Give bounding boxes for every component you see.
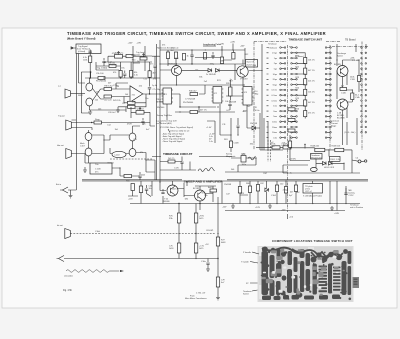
capacitor C201 xyxy=(88,50,92,54)
diode D201 xyxy=(208,69,212,73)
wire xyxy=(160,181,184,197)
svg-text:0.5ms: 0.5ms xyxy=(272,100,277,102)
wire xyxy=(105,120,155,126)
X shift box xyxy=(303,184,323,194)
ground xyxy=(231,204,235,209)
svg-text:Timebase: Timebase xyxy=(268,44,278,46)
svg-text:Gate Off: Gate Off xyxy=(247,60,255,63)
resistor R213 xyxy=(140,57,147,60)
resistor stack labels xyxy=(295,56,315,115)
resistor R204 xyxy=(126,55,133,58)
wire xyxy=(71,47,85,83)
svg-text:22k 1%: 22k 1% xyxy=(308,81,315,83)
svg-text:68k: 68k xyxy=(221,61,224,63)
transistor Q206 xyxy=(85,148,92,156)
svg-text:47k: 47k xyxy=(140,152,143,154)
svg-text:47k: 47k xyxy=(162,45,165,47)
svg-text:Int out: Int out xyxy=(57,224,63,227)
svg-text:10n: 10n xyxy=(149,188,152,190)
wire verticals xamp xyxy=(250,181,296,204)
wire xyxy=(120,153,155,180)
wire xyxy=(89,130,105,163)
resistor R201 xyxy=(89,56,92,63)
svg-text:33k: 33k xyxy=(250,144,253,146)
wire xyxy=(145,46,152,71)
svg-text:22k: 22k xyxy=(142,123,145,125)
resistor R222 xyxy=(174,52,177,59)
component value labels xyxy=(95,49,360,259)
trig level pot xyxy=(136,111,144,115)
wire callout leaders xyxy=(250,252,259,291)
wire xyxy=(195,50,233,60)
wire xyxy=(104,56,152,62)
resistor R34 xyxy=(340,88,347,91)
resistor R233 xyxy=(229,141,232,148)
resistor R240 xyxy=(94,121,102,124)
wire opamp out xyxy=(143,93,165,95)
capacitor C217 xyxy=(236,122,239,130)
wire xyxy=(343,90,353,145)
wire xyxy=(358,60,360,92)
wire right bus xyxy=(347,44,366,145)
svg-text:BC182: BC182 xyxy=(108,163,115,165)
svg-text:47k 1%: 47k 1% xyxy=(308,113,315,115)
resistor R60 xyxy=(131,184,134,191)
resistor chain col1b xyxy=(177,243,180,253)
svg-text:reference 1k/Ω for sel: reference 1k/Ω for sel xyxy=(170,131,190,133)
capacitor C50 xyxy=(180,158,183,166)
box C11B xyxy=(90,163,112,174)
wire xyxy=(149,62,151,87)
wire xyxy=(220,118,231,152)
svg-text:1N4148: 1N4148 xyxy=(109,65,117,67)
transistor Q61 xyxy=(195,190,206,201)
svg-text:R1k: R1k xyxy=(169,218,173,220)
svg-text:Sweep Trig Filter: Sweep Trig Filter xyxy=(157,114,172,117)
svg-text:47k: 47k xyxy=(113,72,116,74)
capacitor C204 xyxy=(123,71,126,79)
svg-text:+24V: +24V xyxy=(334,213,340,215)
svg-text:1N4148: 1N4148 xyxy=(229,102,237,104)
resistor R230 xyxy=(190,93,198,96)
op-amp IC201 xyxy=(130,86,143,102)
svg-text:10μs: 10μs xyxy=(273,74,277,76)
resistor R209 xyxy=(109,65,116,68)
svg-text:C10 4n: C10 4n xyxy=(253,110,259,112)
wire xyxy=(337,44,355,99)
connector trig out xyxy=(66,120,72,130)
svg-text:C 11B: C 11B xyxy=(95,169,101,171)
wire arrowhead xyxy=(120,270,124,272)
diode D60 xyxy=(265,188,269,192)
diode D202 xyxy=(216,69,220,73)
capacitor C211 xyxy=(211,52,214,59)
svg-text:10k: 10k xyxy=(204,195,207,197)
wire xyxy=(60,189,76,191)
svg-text:0.1ms: 0.1ms xyxy=(272,90,277,92)
resistor R50 xyxy=(168,160,175,163)
wire staircase xyxy=(297,53,305,119)
svg-text:unit in Position: unit in Position xyxy=(350,206,363,209)
wire feedback xyxy=(118,94,146,107)
svg-text:C7 1N4148: C7 1N4148 xyxy=(185,99,196,101)
svg-text:C7 4n: C7 4n xyxy=(113,85,118,87)
resistor R72 xyxy=(238,187,241,194)
transistor Q208 xyxy=(129,149,136,157)
wire xyxy=(160,59,177,86)
svg-text:T handle: T handle xyxy=(241,262,250,264)
ground xyxy=(216,296,220,300)
resistor column RV group xyxy=(248,186,251,193)
resistor xyxy=(275,185,278,192)
resistor R206 xyxy=(119,71,122,78)
wire xyxy=(152,56,160,78)
svg-text:50μs: 50μs xyxy=(273,84,277,86)
svg-text:R30 4k7: R30 4k7 xyxy=(189,91,197,93)
resistor R228 xyxy=(232,53,235,60)
resistor stack ST board xyxy=(304,58,307,64)
svg-text:0.5s: 0.5s xyxy=(273,137,277,139)
wire bottom rail xyxy=(130,203,360,205)
resistor R227 xyxy=(220,57,223,64)
svg-text:(+): (+) xyxy=(58,86,61,88)
wire xyxy=(313,181,346,211)
svg-text:Stage: Stage xyxy=(331,125,337,128)
svg-text:68k: 68k xyxy=(185,198,188,200)
ground xyxy=(83,167,87,172)
svg-text:47k: 47k xyxy=(153,78,156,80)
svg-text:Switch: Switch xyxy=(243,293,249,296)
wire table rules xyxy=(168,121,215,143)
gate off box xyxy=(246,60,258,68)
resistor R33 xyxy=(358,76,361,82)
svg-text:x10 probe: x10 probe xyxy=(64,276,74,278)
svg-text:C4B: C4B xyxy=(281,145,286,147)
svg-text:C12V: C12V xyxy=(349,195,355,197)
capacitor C2B xyxy=(241,156,246,163)
resistor R70 xyxy=(139,186,142,193)
svg-text:-12V: -12V xyxy=(222,207,227,209)
wire down bus xyxy=(217,197,219,296)
svg-text:4k7 1%: 4k7 1% xyxy=(308,102,315,104)
svg-text:4k7 1%: 4k7 1% xyxy=(200,110,207,112)
svg-text:R10C 1.2k: R10C 1.2k xyxy=(330,159,339,161)
resistor R210 xyxy=(104,88,112,91)
svg-text:HOLD OFF: HOLD OFF xyxy=(324,167,335,169)
svg-text:Switch: Switch xyxy=(247,63,253,66)
transistor Q207 xyxy=(129,133,136,141)
svg-text:47n: 47n xyxy=(150,64,153,66)
svg-text:100k: 100k xyxy=(83,60,87,62)
wire xyxy=(305,148,352,173)
wire xyxy=(290,135,305,161)
svg-text:C20 4n7: C20 4n7 xyxy=(108,112,116,114)
resistor xyxy=(284,187,287,194)
svg-text:(Trig. Inhibit): (Trig. Inhibit) xyxy=(96,67,107,70)
svg-text:+1.4V: +1.4V xyxy=(206,127,212,129)
svg-text:+24V: +24V xyxy=(230,42,236,44)
switch wafer labels xyxy=(268,47,278,139)
svg-text:1.730 +5V: 1.730 +5V xyxy=(196,293,206,295)
diode D11 xyxy=(329,162,333,166)
wire xyxy=(283,160,365,173)
svg-text:(PO1 R30: Norm. Trig without S: (PO1 R30: Norm. Trig without Signal) xyxy=(160,126,193,129)
resistor R64 xyxy=(210,189,217,192)
svg-text:+24V: +24V xyxy=(219,44,225,46)
wire stub xyxy=(287,214,289,219)
svg-text:Hor out: Hor out xyxy=(57,144,64,147)
wire xyxy=(71,154,85,164)
resistor R223 xyxy=(182,54,185,61)
svg-text:+24V: +24V xyxy=(128,43,134,45)
svg-text:Ext in: Ext in xyxy=(56,183,61,186)
switch contacts xyxy=(280,47,367,139)
input box trig signal xyxy=(76,44,101,54)
svg-text:50ms: 50ms xyxy=(272,132,277,134)
svg-text:47k: 47k xyxy=(202,193,205,195)
svg-text:1u: 1u xyxy=(290,172,292,174)
svg-text:2k2 C5: 2k2 C5 xyxy=(168,158,175,160)
transistor Q205 xyxy=(85,133,92,141)
svg-text:(Main Board Y Board): (Main Board Y Board) xyxy=(67,37,96,41)
svg-text:10k: 10k xyxy=(225,101,228,103)
svg-text:COMPONENT LOCATIONS TIMEBASE S: COMPONENT LOCATIONS TIMEBASE SWITCH UNIT xyxy=(272,239,353,243)
wire trig bus down xyxy=(72,54,77,191)
wire main rail xyxy=(85,77,160,79)
svg-text:R10A 10k: R10A 10k xyxy=(311,144,320,147)
svg-text:R5 2N6004: R5 2N6004 xyxy=(96,81,107,83)
pcb connector tab xyxy=(353,277,360,288)
svg-text:1ms: 1ms xyxy=(273,106,277,108)
svg-text:100n: 100n xyxy=(172,189,176,191)
svg-text:BC182B: BC182B xyxy=(337,118,345,120)
transistor Q31 xyxy=(337,99,348,110)
svg-text:0.2ms: 0.2ms xyxy=(272,95,277,97)
wire xyxy=(89,107,126,112)
wire dashed gang xyxy=(268,140,271,162)
wire rail2 xyxy=(225,210,345,212)
wire xyxy=(160,157,196,171)
junction xyxy=(178,203,179,204)
svg-text:2x 1N4148: 2x 1N4148 xyxy=(206,74,217,76)
wire xyxy=(256,146,283,148)
wire xamp stubs xyxy=(141,181,248,204)
capacitor C208 xyxy=(141,118,144,125)
wire bias loop xyxy=(81,72,90,113)
timebase switch unit border xyxy=(254,42,368,213)
svg-text:20μs: 20μs xyxy=(273,79,277,81)
resistor R243 xyxy=(124,175,132,178)
resistor R226 xyxy=(203,53,206,60)
svg-text:VT 2218: VT 2218 xyxy=(240,79,248,81)
component value labels trigger generator xyxy=(96,45,259,113)
resistor xyxy=(256,185,259,192)
ground xyxy=(206,268,210,272)
wire dashed link xyxy=(70,233,215,235)
svg-text:0.5μs: 0.5μs xyxy=(272,53,277,55)
svg-text:10k 1%: 10k 1% xyxy=(308,60,315,62)
resistor R62 xyxy=(272,146,280,149)
capacitor C60 xyxy=(145,185,151,197)
wire long xyxy=(64,258,218,260)
svg-text:TIMEBASE SWITCH UNIT: TIMEBASE SWITCH UNIT xyxy=(289,38,323,42)
transistor Q201 xyxy=(86,83,93,91)
svg-text:C9k 100: C9k 100 xyxy=(96,73,104,75)
ground xyxy=(116,107,120,113)
capacitor C205 xyxy=(102,58,105,66)
capacitor C207 xyxy=(153,62,156,71)
resistor R216 xyxy=(128,101,136,104)
ground xyxy=(330,206,334,210)
wire xyxy=(225,158,287,172)
svg-text:BC182: BC182 xyxy=(193,188,200,190)
svg-text:( 10.5 - 10k ): ( 10.5 - 10k ) xyxy=(344,132,356,134)
transistor Q203 xyxy=(172,66,182,76)
wire xyxy=(112,83,130,97)
svg-text:Timebase: Timebase xyxy=(268,47,278,49)
wire dashes tb link xyxy=(110,158,152,160)
long rail xyxy=(160,64,245,85)
svg-text:10n: 10n xyxy=(132,101,135,103)
resistor R79 xyxy=(216,277,219,287)
wire buses into unit xyxy=(260,113,283,150)
ground xyxy=(268,204,272,209)
resistor R231 xyxy=(190,111,198,114)
svg-text:+24V: +24V xyxy=(128,199,133,201)
transistor Q202 xyxy=(86,98,93,106)
junction dots xyxy=(103,77,104,78)
svg-text:(if fitted): (if fitted) xyxy=(78,50,86,53)
resistor xyxy=(294,185,297,192)
connector ext horiz xyxy=(57,256,65,262)
svg-text:5.1k: 5.1k xyxy=(134,75,138,77)
timebase magnitude box xyxy=(311,154,323,160)
wire verticals xyxy=(167,64,247,120)
wire xyxy=(133,46,140,78)
svg-text:Trig out: Trig out xyxy=(58,115,65,118)
wire xyxy=(89,53,91,78)
wafer resistors lower xyxy=(288,108,295,111)
oval label xyxy=(112,151,126,157)
svg-text:R41 12k: R41 12k xyxy=(113,100,120,102)
resistor R217 xyxy=(128,105,136,108)
wire xyxy=(184,186,216,210)
svg-text:Fig. 4.5b: Fig. 4.5b xyxy=(63,290,73,292)
resistor R211 xyxy=(104,95,112,98)
wire xyxy=(243,44,262,150)
wire xyxy=(205,44,245,65)
connector ext arrow xyxy=(63,187,69,193)
ground xyxy=(88,110,92,114)
svg-text:-24V: -24V xyxy=(240,46,245,48)
R10C box xyxy=(330,157,341,162)
IC203 block xyxy=(243,87,252,106)
svg-text:TIMEBASE CIRCUIT: TIMEBASE CIRCUIT xyxy=(163,152,193,156)
resistor R214 xyxy=(148,71,151,78)
svg-text:2ms: 2ms xyxy=(273,111,277,113)
wire xyxy=(85,163,120,176)
svg-text:470R: 470R xyxy=(127,123,132,125)
handwritten ac mark xyxy=(248,156,256,160)
transistor Q60 xyxy=(167,185,178,196)
connector hor out xyxy=(66,149,72,159)
svg-text:Switch: Switch xyxy=(337,55,343,58)
resistor R10A xyxy=(315,148,325,151)
resistor chain col1 xyxy=(177,213,180,223)
resistor chain col2 xyxy=(194,213,197,223)
svg-text:+ve Vertical (A,B): +ve Vertical (A,B) xyxy=(156,122,172,125)
junction xyxy=(217,258,218,259)
resistor R20A xyxy=(289,141,292,148)
resistor R10B xyxy=(335,148,344,151)
svg-text:TB Board: TB Board xyxy=(345,39,356,42)
pcb dark component blobs xyxy=(261,247,352,301)
wire row stubs xyxy=(267,48,269,138)
oval c4b xyxy=(310,168,317,172)
wire xyxy=(71,93,86,95)
svg-text:C14k: C14k xyxy=(355,97,360,99)
svg-text:5ms: 5ms xyxy=(273,116,277,118)
svg-text:5μs: 5μs xyxy=(274,69,277,71)
capacitor C206 xyxy=(148,88,151,94)
wire xyxy=(182,69,239,71)
wire xyxy=(128,191,138,197)
resistor R77 xyxy=(216,237,219,246)
svg-text:Trig Level: Trig Level xyxy=(135,109,144,111)
svg-text:SN7400: SN7400 xyxy=(157,107,165,109)
transistor Q30 xyxy=(337,66,348,77)
svg-text:22k: 22k xyxy=(139,85,142,87)
svg-text:TIMEBASE AND TRIGGER CIRCUIT,: TIMEBASE AND TRIGGER CIRCUIT, TIMEBASE S… xyxy=(67,31,326,36)
wire xyxy=(96,62,121,71)
svg-text:+12V: +12V xyxy=(255,207,261,209)
svg-text:Label: Label xyxy=(115,155,120,157)
svg-text:4k7 1%: 4k7 1% xyxy=(308,70,315,72)
svg-text:10ms: 10ms xyxy=(272,122,277,124)
ground xyxy=(69,190,73,198)
resistor R35 xyxy=(351,93,354,100)
svg-text:CRT x2: CRT x2 xyxy=(305,191,313,193)
diode D203 xyxy=(252,126,256,130)
svg-text:- Norm Trig with Signal: - Norm Trig with Signal xyxy=(162,140,183,143)
svg-text:47n: 47n xyxy=(95,171,98,173)
IC201 block xyxy=(163,88,172,104)
transistor Q204 xyxy=(237,66,248,77)
capacitor C210 xyxy=(190,50,193,64)
svg-text:BC182: BC182 xyxy=(134,55,141,57)
diode D10 xyxy=(323,162,327,166)
wire xyxy=(178,204,180,259)
capacitor C214 xyxy=(228,100,231,110)
resistor R207 xyxy=(130,71,133,78)
svg-text:C10d: C10d xyxy=(95,231,100,233)
svg-text:10n: 10n xyxy=(145,98,148,100)
svg-text:C10B: C10B xyxy=(234,143,240,145)
svg-text:P handle: P handle xyxy=(243,252,252,254)
capacitor C216 xyxy=(138,172,141,180)
svg-text:Main Mains Transformer: Main Mains Transformer xyxy=(185,298,207,300)
svg-text:33k: 33k xyxy=(199,77,202,79)
svg-text:1k0 C20: 1k0 C20 xyxy=(104,100,112,102)
wire contact links xyxy=(281,48,330,138)
svg-text:1.4v: 1.4v xyxy=(209,141,213,143)
resistor R232 xyxy=(229,87,232,96)
svg-text:10k 1%: 10k 1% xyxy=(308,91,315,93)
svg-text:20ms: 20ms xyxy=(272,127,277,129)
svg-text:1N4148: 1N4148 xyxy=(224,184,232,186)
wire xyxy=(195,204,197,259)
svg-text:R10B 10k: R10B 10k xyxy=(332,145,341,147)
